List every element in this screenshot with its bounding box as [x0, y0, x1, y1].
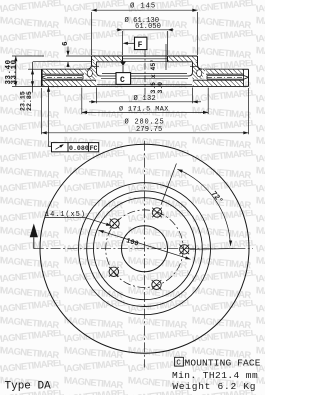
bolt hole 2 — [152, 208, 161, 217]
svg-text:Min. TH21.4 mm: Min. TH21.4 mm — [172, 370, 258, 381]
bolt circle dim 100 — [99, 230, 191, 259]
bolt hole 5 — [109, 267, 118, 276]
circle dia 171.5 — [79, 183, 211, 315]
svg-text:Ø 171.5 MAX: Ø 171.5 MAX — [119, 105, 169, 114]
svg-text:MOUNTING FACE: MOUNTING FACE — [185, 357, 261, 368]
bore far-side edges — [123, 58, 168, 60]
svg-text:0.080: 0.080 — [69, 145, 89, 152]
vent channel left — [42, 76, 47, 78]
outer circle dia 280 — [40, 144, 249, 353]
hat wall right hatch — [193, 62, 206, 79]
svg-text:Ø 145: Ø 145 — [130, 2, 156, 11]
72 deg dimension — [177, 169, 230, 246]
hat interior far edges — [101, 75, 189, 77]
svg-text:3.5 x 45°: 3.5 x 45° — [149, 59, 157, 94]
hat inner wall right — [189, 62, 193, 76]
section direction arrow — [30, 224, 38, 238]
bolt hole 3 — [180, 245, 189, 254]
bolt circle (dash-dot) — [106, 210, 184, 288]
svg-text:Ø 132: Ø 132 — [134, 94, 157, 103]
circle dia 145 — [87, 191, 203, 307]
svg-text:279.75: 279.75 — [136, 126, 162, 134]
svg-text:14.1(x5): 14.1(x5) — [45, 211, 86, 219]
mounting face note — [172, 357, 261, 392]
bore circle dia 61 — [122, 226, 168, 272]
front view centerlines — [144, 141, 146, 368]
hat wall left hatch — [84, 62, 97, 79]
hat plate hatch — [92, 57, 122, 62]
svg-text:C: C — [120, 76, 125, 85]
section axis centerline — [144, 50, 146, 97]
svg-text:Weight 6.2 Kg: Weight 6.2 Kg — [172, 381, 256, 392]
hat outer wall left + fillet — [87, 56, 92, 69]
bottom cheek hatch — [42, 80, 96, 86]
circle dia 132 — [94, 198, 196, 300]
svg-text:61.050: 61.050 — [135, 23, 161, 31]
friction ring outline — [41, 69, 43, 86]
hat inner wall left — [97, 62, 101, 76]
svg-text:Type DA: Type DA — [5, 381, 52, 393]
svg-text:6: 6 — [62, 41, 70, 46]
hat plate outline — [92, 55, 198, 57]
undercut groove right — [197, 70, 202, 77]
hat outer wall right + fillet — [198, 56, 203, 69]
bolt hole 4 — [152, 280, 161, 289]
undercut groove left — [87, 70, 92, 77]
svg-text:FC: FC — [90, 145, 98, 152]
svg-text:C: C — [176, 359, 181, 367]
bolt hole 1 — [110, 219, 119, 228]
svg-text:33.10: 33.10 — [11, 59, 19, 84]
svg-text:22.85: 22.85 — [26, 91, 33, 111]
svg-text:3.0: 3.0 — [157, 82, 164, 94]
svg-text:F: F — [138, 41, 143, 50]
vent channel right — [244, 76, 249, 78]
top cheek hatch — [42, 70, 84, 75]
